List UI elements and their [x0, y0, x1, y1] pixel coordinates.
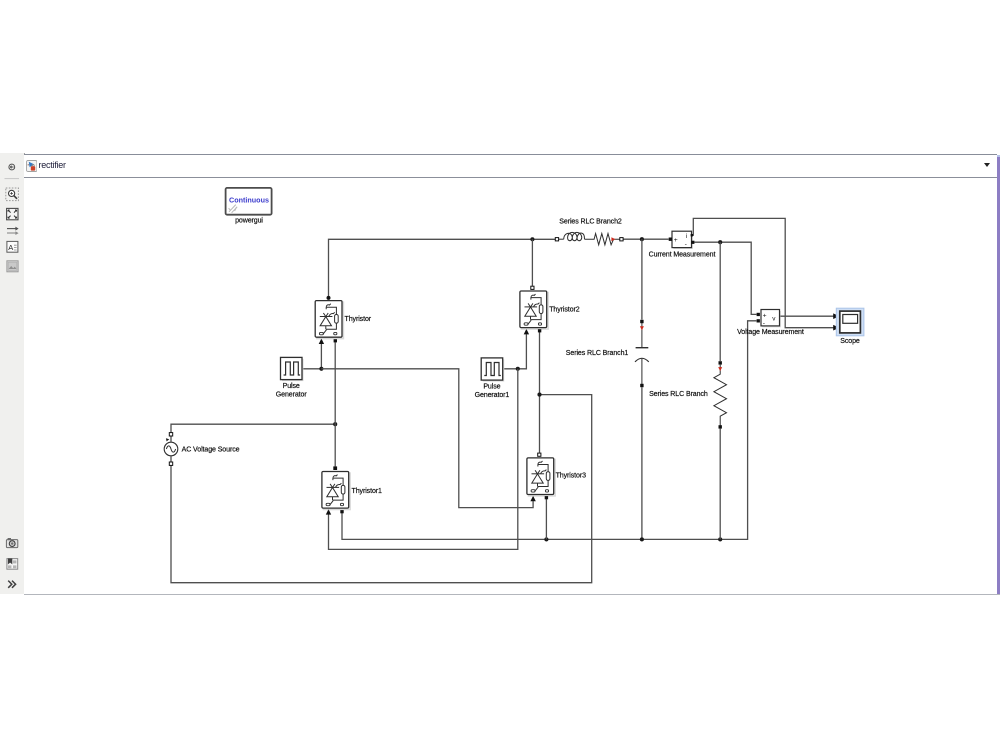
toolbar image icon	[7, 261, 18, 272]
diagram canvas	[24, 178, 997, 594]
wire top rail to Thyristor2 cathode	[531, 239, 533, 286]
svg-text:Voltage Measurement: Voltage Measurement	[737, 329, 804, 336]
block Voltage Measurement	[737, 310, 804, 336]
wire bottom cathode rail to Voltage Measurement minus	[342, 321, 756, 540]
junction rail capacitor dot	[640, 537, 644, 541]
thyristor Thyristor2	[519, 290, 580, 330]
port Series RLC Branch1 top	[640, 320, 643, 323]
svg-text:-: -	[685, 241, 687, 248]
svg-text:+: +	[674, 237, 678, 244]
wire Current Measurement minus to Voltage Measurement plus	[694, 242, 756, 314]
wire Series RLC Branch resistor bottom to rail	[719, 429, 721, 540]
toolbar fit-to-view icon	[7, 208, 18, 219]
port Series RLC Branch bottom	[719, 425, 722, 428]
arrowhead Scope input 1	[833, 313, 839, 319]
port Voltage Measurement plus	[757, 313, 760, 316]
wire Pulse Generator1 output to Thyristor2 gate	[504, 334, 526, 369]
arrowhead Thyristor1 gate	[326, 509, 331, 514]
svg-text:Generator: Generator	[276, 392, 308, 399]
toolbar report icon	[7, 558, 18, 569]
svg-text:Scope: Scope	[840, 338, 860, 345]
arrowhead Thyristor2 gate	[524, 329, 529, 335]
wire top rail cathode bus to Series RLC Branch2	[329, 239, 556, 297]
thyristor Thyristor1	[321, 471, 382, 511]
svg-text:+: +	[763, 313, 767, 320]
port Current Measurement plus	[669, 238, 672, 241]
wire down to Series RLC Branch1 capacitor	[641, 239, 643, 319]
port Series RLC Branch2 left	[555, 238, 558, 241]
port Thyristor1 anode	[333, 466, 337, 470]
junction pulse gen dot	[319, 367, 323, 371]
model tab bar	[24, 154, 997, 178]
toolbar annotation icon	[7, 241, 18, 252]
junction capacitor top dot	[640, 237, 644, 241]
toolbar expand chevrons	[8, 581, 15, 588]
svg-text:i: i	[686, 233, 687, 240]
svg-text:-: -	[763, 320, 765, 327]
port AC Voltage Source minus	[169, 462, 172, 465]
junction pulse gen1 dot	[516, 367, 520, 371]
block Scope (selected)	[836, 308, 864, 345]
wire AC source plus to bridge node A	[171, 424, 335, 433]
port Series RLC Branch2 right	[620, 238, 623, 241]
svg-text:Thyristor2: Thyristor2	[549, 307, 580, 314]
junction top rail dot	[530, 237, 534, 241]
wire Pulse Generator output to Thyristor gate	[303, 344, 321, 369]
block Pulse Generator1	[475, 358, 510, 399]
svg-text:Current Measurement: Current Measurement	[649, 252, 716, 259]
svg-text:Series RLC Branch: Series RLC Branch	[649, 391, 708, 398]
block Current Measurement	[649, 231, 716, 258]
branch Series RLC Branch1 (capacitor)	[566, 323, 649, 386]
svg-text:Thyristor1: Thyristor1	[352, 488, 383, 495]
junction rail resistor dot	[718, 537, 722, 541]
wire down to Series RLC Branch resistor top	[719, 242, 721, 361]
arrowhead Scope input 2	[833, 325, 839, 331]
port Thyristor3 anode	[538, 453, 541, 456]
svg-text:Continuous: Continuous	[229, 195, 269, 204]
wire Pulse Generator1 output to Thyristor1 gate	[329, 369, 518, 550]
port Current Measurement minus out	[691, 241, 694, 244]
junction node B dot	[537, 393, 541, 397]
thyristor Thyristor3	[526, 457, 586, 497]
red orientation arrow Series RLC Branch2	[611, 237, 615, 241]
svg-text:Thyristor: Thyristor	[345, 316, 372, 323]
arrowhead Thyristor3 gate	[530, 496, 535, 502]
port Series RLC Branch1 bottom	[640, 384, 643, 387]
svg-text:A: A	[8, 243, 13, 252]
svg-text:Pulse: Pulse	[283, 383, 300, 390]
port Current Measurement i out	[691, 234, 693, 236]
wire AC source minus to bridge node B	[171, 395, 592, 583]
wire Voltage Measurement v output to Scope input 1	[780, 315, 834, 317]
wire Thyristor3 m to rail	[545, 498, 547, 539]
svg-text:AC Voltage Source: AC Voltage Source	[182, 446, 240, 453]
branch Series RLC Branch2 (L and R in series)	[559, 218, 622, 244]
red orientation arrow Series RLC Branch	[718, 367, 722, 371]
junction node A dot	[333, 422, 337, 426]
left toolbar panel	[0, 153, 25, 594]
toolbar zoom-region icon	[6, 188, 19, 201]
port Voltage Measurement minus	[757, 319, 760, 322]
port Thyristor cathode dot	[327, 296, 331, 300]
svg-text:Series RLC Branch2: Series RLC Branch2	[559, 218, 622, 225]
arrowhead Thyristor gate	[319, 339, 324, 345]
port AC Voltage Source plus	[169, 433, 172, 436]
svg-text:Thyristor3: Thyristor3	[556, 473, 587, 480]
port Thyristor1 m	[340, 510, 343, 513]
wire capacitor bottom to cathode rail	[641, 387, 643, 539]
toolbar back button	[9, 164, 15, 170]
simulink model tab icon	[26, 160, 37, 172]
wire Thyristor m to Thyristor1 anode	[334, 342, 336, 466]
junction resistor top dot	[718, 240, 722, 244]
port Series RLC Branch top	[719, 361, 722, 364]
svg-text:powergui: powergui	[235, 217, 263, 224]
wire Current Measurement i output to Scope input 2	[692, 218, 834, 327]
red orientation arrow Series RLC Branch1	[640, 326, 644, 330]
port Thyristor m	[334, 339, 337, 342]
svg-text:Series RLC Branch1: Series RLC Branch1	[566, 350, 629, 357]
toolbar separator	[5, 178, 20, 180]
port Thyristor2 cathode	[531, 286, 534, 289]
source AC Voltage Source	[164, 436, 239, 462]
svg-text:Generator1: Generator1	[475, 392, 510, 399]
toolbar camera icon	[6, 538, 17, 548]
thyristor Thyristor	[315, 300, 372, 340]
block powergui	[226, 188, 272, 225]
toolbar signal-arrows icon	[7, 227, 19, 235]
wire Pulse Generator output to Thyristor3 gate	[321, 369, 533, 508]
block Pulse Generator	[276, 357, 308, 398]
svg-text:Pulse: Pulse	[483, 383, 500, 390]
port Thyristor2 m	[538, 329, 541, 332]
branch Series RLC Branch (resistor)	[649, 365, 726, 426]
wire Series RLC Branch2 to Current Measurement	[623, 238, 669, 240]
wire Thyristor2 m to Thyristor3 anode	[539, 332, 541, 453]
junction rail Thyristor3 dot	[544, 537, 548, 541]
port Thyristor3 m	[545, 496, 548, 499]
